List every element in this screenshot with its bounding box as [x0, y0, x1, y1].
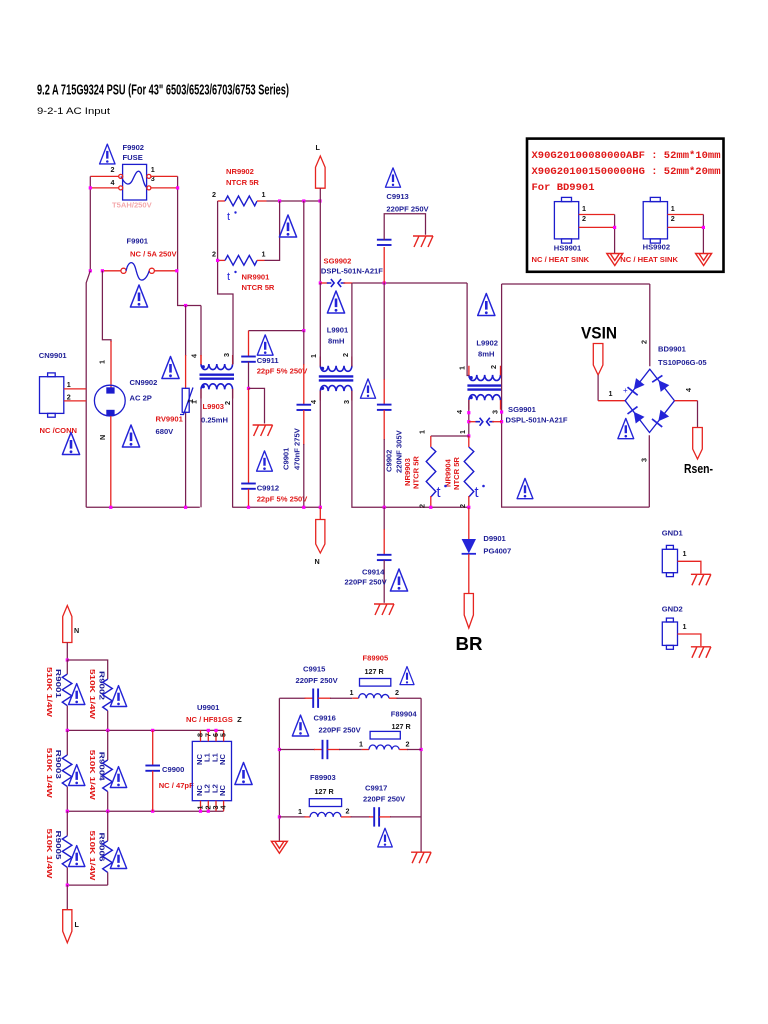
svg-text:C9900: C9900: [162, 765, 184, 774]
svg-text:2: 2: [671, 214, 675, 223]
wire L9902 pin1 riser: [467, 283, 469, 376]
svg-text:R9001: R9001: [54, 669, 63, 699]
wire fuse bottom-left: [90, 187, 118, 189]
thermistor NR9902: [218, 200, 225, 202]
svg-text:FUSE: FUSE: [123, 153, 143, 162]
fuse F9902 body: [123, 164, 147, 200]
svg-text:NC / 5A 250V: NC / 5A 250V: [130, 250, 178, 259]
wire left rail: [89, 176, 91, 270]
svg-text:1: 1: [350, 688, 354, 697]
svg-text:2: 2: [395, 688, 399, 697]
wire L9901 pin3 to rail (start of segment B): [352, 391, 469, 507]
wire L9901 pin1 riser: [319, 283, 321, 367]
svg-text:220PF 250V: 220PF 250V: [386, 205, 429, 214]
junction dots fuse: [89, 186, 92, 189]
thermistor NR9901: [218, 259, 225, 261]
warning triangle in bridge: [618, 418, 634, 438]
svg-text:510K 1/4W: 510K 1/4W: [45, 748, 54, 799]
connector CN9901 body: [40, 377, 64, 414]
svg-text:NR9901: NR9901: [242, 273, 271, 282]
svg-text:C9914: C9914: [362, 568, 385, 577]
svg-text:RV9901: RV9901: [156, 415, 184, 424]
svg-text:C9911: C9911: [257, 356, 280, 365]
svg-text:HS9901: HS9901: [554, 244, 582, 253]
wire row2: [67, 729, 223, 731]
chassis ground bottom-right: [411, 852, 431, 863]
wire to chassis ground (C9911 mid tap): [249, 388, 265, 423]
fuse F9901 body: [121, 268, 126, 273]
warning triangle above C9912: [257, 451, 273, 471]
diode D9901: [468, 508, 470, 540]
heatsink info box: [527, 139, 724, 272]
svg-text:U9901: U9901: [197, 703, 220, 712]
svg-text:R9005: R9005: [54, 831, 63, 861]
wire N to row1: [66, 643, 68, 661]
svg-text:AC 2P: AC 2P: [130, 394, 152, 403]
capacitor C9916: [279, 749, 315, 751]
svg-text:510K 1/4W: 510K 1/4W: [45, 829, 54, 880]
svg-text:t: t: [227, 271, 230, 283]
svg-text:2: 2: [458, 504, 467, 508]
chassis ground C9911 tap: [253, 425, 273, 436]
svg-text:220PF 250V: 220PF 250V: [319, 726, 362, 735]
svg-text:F9901: F9901: [127, 237, 149, 246]
chassis Y-ground bottom-left: [271, 841, 287, 853]
wire NR pin2 tie to L9903 pin3: [218, 201, 233, 364]
choke L9902: [467, 375, 502, 400]
IC U9901 body: [192, 741, 231, 800]
wire NR9902 pin1 node: [267, 200, 321, 202]
svg-text:NTCR 5R: NTCR 5R: [226, 178, 259, 187]
svg-text:NC: NC: [218, 785, 227, 796]
spark gap SG9902: [320, 282, 328, 284]
net arrow Rsen-: [693, 428, 703, 460]
wire L9902 pin4 node chain: [468, 400, 470, 436]
svg-text:R9003: R9003: [54, 750, 63, 779]
thermistor NR9904: [468, 436, 470, 447]
IC U9901 top pins: [200, 730, 202, 741]
svg-text:22pF 5% 250V: 22pF 5% 250V: [257, 366, 309, 375]
svg-text:NTCR 5R: NTCR 5R: [452, 457, 461, 490]
warning triangle below F9901: [130, 285, 147, 307]
svg-text:0.25mH: 0.25mH: [201, 416, 228, 425]
svg-text:GND2: GND2: [662, 605, 683, 614]
warning triangle above L9902: [478, 294, 495, 316]
capacitor C9901: [303, 331, 305, 365]
svg-text:t: t: [475, 485, 479, 501]
svg-text:680V: 680V: [156, 427, 175, 436]
svg-text:4: 4: [455, 410, 464, 414]
svg-text:1: 1: [582, 204, 586, 213]
svg-text:4: 4: [309, 400, 318, 404]
svg-text:NC / HF81GS Z: NC / HF81GS Z: [186, 715, 242, 724]
connector CN9901 pin wires: [64, 388, 86, 390]
svg-text:+: +: [623, 386, 628, 395]
wire fuse top-left: [90, 175, 118, 177]
wire C9911 top link: [249, 330, 304, 332]
svg-text:X90G201001500000HG : 52mm*20mm: X90G201001500000HG : 52mm*20mm: [532, 166, 721, 178]
svg-text:N: N: [74, 626, 79, 635]
IC U9901 bottom pins: [200, 801, 202, 812]
svg-text:L9903: L9903: [203, 402, 225, 411]
warning triangle left of SG9901 rail: [517, 478, 533, 498]
svg-text:1: 1: [298, 807, 302, 816]
bottom filter right rail: [420, 698, 422, 852]
svg-text:2: 2: [212, 250, 216, 259]
svg-text:X90G20100080000ABF : 52mm*10mm: X90G20100080000ABF : 52mm*10mm: [532, 150, 721, 162]
svg-text:1: 1: [609, 389, 613, 398]
net arrow N (below rail): [319, 507, 321, 519]
svg-text:2: 2: [67, 393, 71, 402]
wire left rail diagonal to lower rail: [86, 271, 90, 508]
svg-text:1: 1: [359, 740, 363, 749]
svg-text:F89903: F89903: [310, 773, 336, 782]
svg-text:510K 1/4W: 510K 1/4W: [88, 669, 97, 720]
svg-text:t: t: [437, 485, 441, 501]
wire F9901 left: [102, 270, 121, 272]
chassis ground C9914: [374, 604, 394, 615]
svg-text:NC / 47pF: NC / 47pF: [159, 781, 194, 790]
svg-text:L9902: L9902: [476, 339, 498, 348]
spark gap SG9901: [469, 421, 477, 423]
svg-text:2: 2: [418, 504, 427, 508]
svg-text:1: 1: [262, 250, 266, 259]
net arrow N (divider input): [63, 606, 72, 643]
svg-text:510K 1/4W: 510K 1/4W: [88, 750, 97, 801]
svg-text:3: 3: [640, 458, 649, 462]
bridge diode upper-left: [628, 378, 645, 395]
svg-text:NR9902: NR9902: [226, 167, 254, 176]
svg-text:22pF 5% 250V: 22pF 5% 250V: [257, 495, 309, 504]
wire F9901 to L9903 pin4: [178, 271, 201, 306]
svg-text:4: 4: [111, 178, 115, 187]
capacitor C9915: [279, 697, 305, 699]
svg-text:8mH: 8mH: [478, 350, 494, 359]
wire fuse top-right: [151, 175, 178, 177]
svg-text:8mH: 8mH: [328, 337, 344, 346]
heatsink HS9902: [643, 202, 667, 239]
svg-text:3: 3: [222, 353, 231, 357]
svg-text:SG9902: SG9902: [324, 257, 352, 266]
svg-text:C9916: C9916: [314, 714, 336, 723]
svg-text:1: 1: [458, 430, 467, 434]
wire row4 bottom: [67, 884, 107, 886]
wire bottom rail segment A2: [232, 506, 319, 508]
svg-text:NTCR 5R: NTCR 5R: [242, 283, 275, 292]
bridge diode lower-left: [628, 407, 645, 424]
net arrow L (divider output): [66, 885, 68, 910]
warning triangle below CN9902: [122, 425, 139, 447]
svg-text:1: 1: [190, 400, 199, 404]
svg-text:HS9902: HS9902: [643, 243, 670, 252]
svg-text:NTCR 5R: NTCR 5R: [412, 456, 421, 489]
ferrite bead F89904: [370, 731, 400, 739]
svg-text:2: 2: [212, 190, 216, 199]
capacitor C9913: [383, 247, 385, 283]
warning triangle left of RV9901: [162, 357, 179, 379]
svg-text:220PF 250V: 220PF 250V: [345, 578, 388, 587]
svg-text:2: 2: [582, 214, 586, 223]
svg-text:127 R: 127 R: [365, 667, 385, 676]
svg-text:SG9901: SG9901: [508, 405, 537, 414]
svg-text:510K 1/4W: 510K 1/4W: [45, 667, 54, 718]
warning triangle left of C9902: [360, 379, 375, 398]
wire SG9902 to L9902: [352, 282, 467, 284]
capacitor C9911: [248, 331, 250, 357]
capacitor C9902: [383, 283, 385, 380]
svg-text:1: 1: [67, 380, 71, 389]
svg-text:2: 2: [406, 740, 410, 749]
warning triangle NR area: [279, 215, 296, 237]
svg-text:1: 1: [683, 622, 687, 631]
junction dots F9901 row: [89, 269, 92, 272]
wire L9903 pin1 to rail: [200, 389, 202, 507]
svg-text:C9915: C9915: [303, 665, 326, 674]
net arrow BR: [464, 594, 473, 629]
capacitor C9917: [369, 816, 374, 818]
svg-text:1: 1: [151, 165, 155, 174]
svg-text:D9901: D9901: [483, 534, 506, 543]
svg-text:510K 1/4W: 510K 1/4W: [88, 831, 97, 882]
wire NR9901 pin1 up to NR9902: [265, 201, 280, 260]
wire F9901 right: [154, 270, 176, 272]
svg-text:220PF 250V: 220PF 250V: [363, 795, 406, 804]
warning triangle above C9913: [385, 168, 400, 187]
svg-text:N: N: [315, 557, 320, 566]
wire C9911 branch drop: [303, 201, 305, 331]
varistor RV9901 body: [182, 388, 189, 412]
warning triangle right of U9901: [235, 763, 252, 785]
bridge diode upper-right: [652, 375, 669, 392]
svg-text:N: N: [98, 435, 107, 440]
svg-text:DSPL-501N-A21F: DSPL-501N-A21F: [321, 267, 383, 276]
svg-text:GND1: GND1: [662, 529, 684, 538]
svg-text:L: L: [316, 143, 321, 152]
svg-text:4: 4: [684, 388, 693, 392]
wire bottom rail segment A1: [86, 506, 200, 508]
svg-text:4: 4: [219, 806, 228, 810]
capacitor C9914: [383, 507, 385, 530]
warning triangle above C9911: [257, 335, 273, 355]
svg-text:470nF 275V: 470nF 275V: [293, 427, 302, 470]
svg-text:C9912: C9912: [257, 484, 279, 493]
svg-text:BD9901: BD9901: [658, 345, 687, 354]
warning triangle near F9902: [100, 144, 115, 164]
ferrite bead F89903: [309, 799, 341, 807]
ferrite bead F89905: [360, 679, 391, 687]
svg-text:220PF 250V: 220PF 250V: [296, 676, 339, 685]
svg-text:3: 3: [342, 400, 351, 404]
svg-text:T5AH/250V: T5AH/250V: [112, 201, 153, 210]
svg-text:2: 2: [640, 340, 649, 344]
wire right loop: top link, right vertical, bottom rail C: [502, 284, 650, 507]
svg-text:1: 1: [683, 549, 687, 558]
svg-text:2: 2: [346, 807, 350, 816]
wire CN9902 pin1 riser: [102, 271, 111, 342]
svg-text:3: 3: [491, 410, 500, 414]
svg-text:C9901: C9901: [282, 447, 291, 470]
svg-text:CN9902: CN9902: [130, 378, 158, 387]
svg-text:1: 1: [262, 190, 266, 199]
svg-text:NC / HEAT SINK: NC / HEAT SINK: [620, 255, 678, 264]
svg-text:TS10P06G-05: TS10P06G-05: [658, 358, 707, 367]
svg-text:1: 1: [309, 354, 318, 358]
svg-text:C9902: C9902: [385, 450, 394, 472]
wire right rail: [177, 176, 179, 270]
bottom filter left rail: [278, 698, 280, 841]
wire L9901 pin4 to rail: [319, 391, 321, 507]
svg-text:F89905: F89905: [363, 654, 390, 663]
wire row1 top: [67, 660, 107, 679]
svg-text:F9902: F9902: [123, 143, 145, 152]
wire L9903 pin2 to rail: [232, 389, 234, 507]
svg-text:1: 1: [98, 360, 107, 364]
capacitor C9900: [152, 730, 154, 765]
svg-text:9.2 A 715G9324 PSU (For 43" 65: 9.2 A 715G9324 PSU (For 43" 6503/6523/67…: [37, 83, 289, 99]
wire CN9902 N to rail: [110, 416, 112, 507]
heatsink HS9901: [554, 202, 578, 239]
bridge rectifier BD9901: [625, 369, 674, 432]
svg-text:9-2-1 AC Input: 9-2-1 AC Input: [37, 106, 111, 116]
svg-text:NC / HEAT SINK: NC / HEAT SINK: [532, 255, 590, 264]
svg-text:5: 5: [219, 733, 228, 737]
svg-text:C9913: C9913: [386, 192, 408, 201]
warning triangle right of C9914: [390, 569, 407, 591]
svg-text:BR: BR: [456, 634, 483, 654]
varistor RV9901 wire: [185, 306, 187, 357]
svg-text:CN9901: CN9901: [39, 351, 68, 360]
svg-text:NC: NC: [218, 754, 227, 765]
svg-text:4: 4: [190, 354, 199, 358]
svg-text:PG4007: PG4007: [483, 547, 511, 556]
wire L riser: [319, 188, 321, 283]
svg-text:VSIN: VSIN: [581, 324, 617, 343]
svg-text:2: 2: [223, 401, 232, 405]
choke L9901: [319, 366, 354, 391]
svg-text:For BD9901: For BD9901: [532, 182, 595, 194]
svg-text:L9901: L9901: [327, 326, 349, 335]
svg-text:3: 3: [151, 174, 155, 183]
svg-text:t: t: [227, 211, 230, 223]
svg-text:2: 2: [111, 165, 115, 174]
capacitor C9912: [248, 388, 250, 483]
svg-text:DSPL-501N-A21F: DSPL-501N-A21F: [506, 416, 568, 425]
svg-text:1: 1: [418, 430, 427, 434]
svg-text:C9917: C9917: [365, 784, 387, 793]
bridge diode lower-right: [652, 410, 669, 427]
wire L9901 pin2 riser: [351, 283, 353, 367]
wire bridge to Rsen-: [675, 400, 698, 402]
warning triangle below SG9902: [327, 291, 344, 313]
chassis ground C9913: [413, 236, 433, 247]
svg-text:2: 2: [489, 365, 498, 369]
svg-text:127 R: 127 R: [392, 722, 412, 731]
svg-text:F89904: F89904: [391, 710, 418, 719]
svg-text:Rsen-: Rsen-: [684, 462, 713, 476]
svg-text:127 R: 127 R: [315, 787, 335, 796]
svg-text:L: L: [75, 920, 80, 929]
svg-text:1: 1: [458, 366, 467, 370]
thermistor NR9903: [431, 435, 469, 437]
svg-text:1: 1: [671, 204, 675, 213]
wire fuse bottom-right: [151, 187, 178, 189]
wire row3: [67, 810, 223, 812]
svg-text:2: 2: [341, 353, 350, 357]
warning triangle below CN9901: [62, 433, 79, 455]
